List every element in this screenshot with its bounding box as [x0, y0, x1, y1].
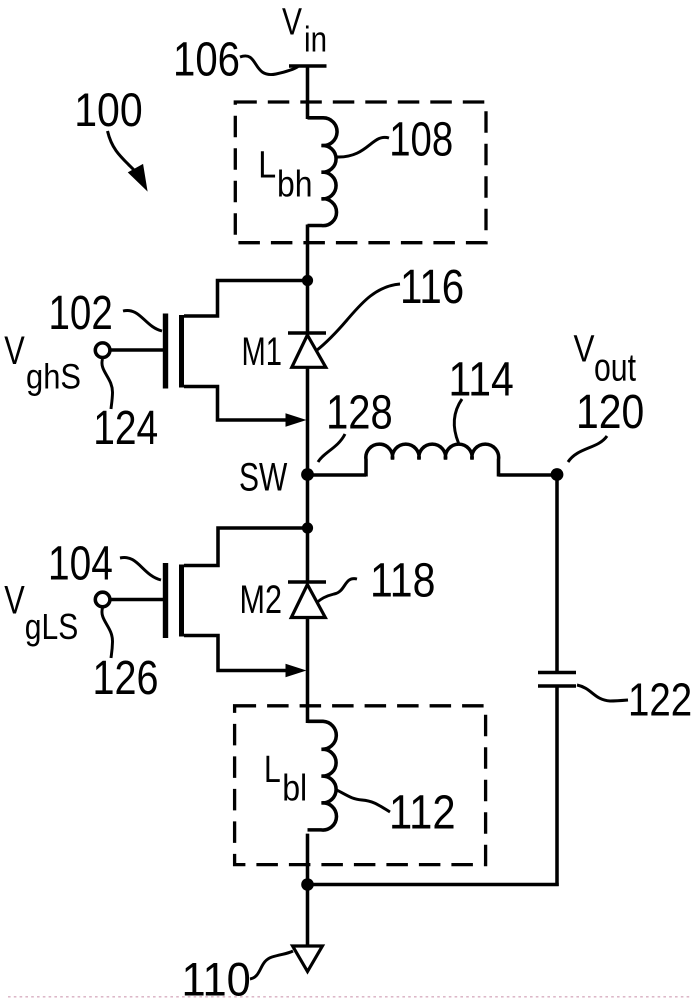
svg-text:114: 114	[449, 354, 514, 407]
M1 source lead	[184, 387, 288, 421]
inductor Lbh	[308, 118, 338, 226]
svg-text:102: 102	[49, 287, 113, 340]
leader 108	[337, 137, 389, 157]
wire M2 to Lbl	[306, 618, 310, 724]
svg-text:V: V	[574, 329, 596, 371]
leader 128	[318, 434, 345, 462]
svg-text:V: V	[282, 2, 303, 44]
svg-text:V: V	[4, 579, 25, 623]
svg-text:V: V	[4, 329, 25, 373]
capacitor 122	[538, 673, 576, 687]
wire inductor 114 to Vout	[499, 473, 558, 477]
node M2 drain junction	[302, 522, 313, 533]
label Vin	[282, 2, 327, 60]
svg-text:104: 104	[48, 538, 113, 591]
label VgLS	[4, 579, 78, 648]
M2 gate bar	[163, 563, 168, 638]
terminal 104 circle	[95, 592, 110, 607]
leader 114	[454, 399, 462, 443]
svg-text:120: 120	[576, 386, 644, 439]
leader 122	[577, 685, 628, 701]
leader 112	[335, 789, 390, 812]
svg-text:110: 110	[182, 953, 251, 1000]
svg-text:L: L	[264, 749, 281, 791]
leader 118	[317, 579, 357, 603]
M2 drain lead	[184, 528, 303, 566]
leader 116	[317, 284, 401, 351]
M2 source arrow	[286, 664, 307, 678]
node M1 drain junction	[302, 275, 313, 286]
arrow 100	[108, 131, 147, 190]
svg-text:out: out	[594, 347, 636, 390]
svg-text:bh: bh	[277, 164, 313, 205]
wire SW to inductor 114	[308, 473, 367, 477]
svg-text:SW: SW	[239, 456, 287, 500]
label VghS	[4, 329, 81, 397]
leader 110	[250, 951, 293, 979]
wire Lbl to ground	[306, 834, 310, 946]
svg-text:124: 124	[93, 402, 158, 455]
svg-text:122: 122	[628, 674, 692, 726]
wire Lbh to M1 drain	[306, 225, 310, 335]
wire M1 to SW	[306, 367, 310, 528]
svg-text:100: 100	[74, 83, 143, 136]
label Vout	[574, 329, 637, 390]
bottom scan line	[8, 996, 692, 998]
svg-text:bl: bl	[282, 768, 307, 809]
leader 126	[102, 608, 113, 658]
dashed box Lbl	[235, 706, 486, 865]
M2 channel bar	[179, 565, 184, 637]
svg-text:ghS: ghS	[26, 358, 81, 397]
svg-text:112: 112	[389, 787, 456, 840]
leader 104	[120, 557, 161, 580]
svg-text:in: in	[304, 19, 327, 60]
inductor 114	[366, 444, 499, 476]
svg-text:108: 108	[389, 114, 453, 167]
inductor Lbl	[308, 721, 337, 830]
label Lbl	[264, 749, 307, 809]
wire capacitor to bottom	[555, 688, 559, 887]
leader 102	[123, 310, 162, 331]
M1 source arrow	[286, 413, 307, 427]
svg-text:106: 106	[173, 34, 240, 87]
ground 110	[293, 946, 323, 972]
leader 106	[240, 56, 298, 75]
body diode 118 of M2	[288, 582, 326, 618]
wire Vout down to capacitor	[555, 475, 559, 672]
svg-text:118: 118	[370, 555, 435, 608]
M2 gate wire	[109, 598, 163, 602]
svg-text:M1: M1	[242, 330, 283, 374]
leader 124	[102, 359, 113, 409]
node Vin terminal	[289, 64, 327, 68]
M1 channel bar	[179, 315, 184, 388]
M1 gate bar	[163, 314, 168, 389]
body diode 116 of M1	[288, 333, 326, 367]
svg-text:128: 128	[326, 387, 393, 440]
svg-text:126: 126	[93, 652, 159, 705]
M1 gate wire	[109, 348, 163, 352]
svg-text:L: L	[258, 145, 276, 187]
svg-text:gLS: gLS	[25, 606, 79, 647]
node SW	[301, 468, 314, 481]
M1 drain lead	[184, 281, 303, 317]
wire bottom horizontal	[308, 883, 559, 887]
terminal 102 circle	[95, 343, 110, 358]
transistor M1	[95, 281, 306, 427]
node bottom junction	[301, 878, 314, 891]
svg-text:116: 116	[400, 261, 464, 314]
node Vout 120	[551, 468, 564, 481]
label Lbh	[258, 145, 312, 205]
wire Vin to Lbh	[306, 66, 310, 119]
leader 120	[568, 436, 607, 462]
wire SW to M2 diode	[306, 528, 310, 583]
M2 source lead	[184, 636, 288, 671]
transistor M2	[95, 528, 306, 677]
svg-text:M2: M2	[240, 578, 283, 622]
dashed box Lbh	[235, 102, 486, 243]
